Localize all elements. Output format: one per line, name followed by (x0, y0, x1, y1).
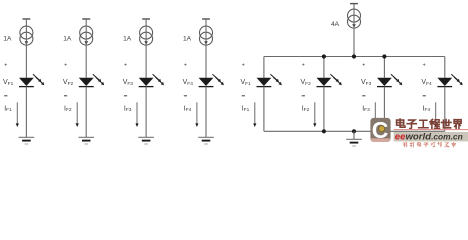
svg-text:+: + (362, 62, 365, 68)
svg-text:+: + (242, 62, 245, 68)
svg-text:1A: 1A (3, 35, 12, 42)
svg-text:+: + (184, 62, 187, 68)
svg-text:1A: 1A (63, 35, 72, 42)
svg-text:4A: 4A (331, 21, 340, 28)
svg-text:+: + (302, 62, 305, 68)
svg-text:1A: 1A (123, 35, 132, 42)
svg-text:1A: 1A (183, 35, 192, 42)
svg-text:+: + (64, 62, 67, 68)
svg-text:+: + (4, 62, 7, 68)
svg-text:eeworld.com.cn: eeworld.com.cn (395, 131, 463, 142)
svg-text:+: + (124, 62, 127, 68)
svg-text:+: + (423, 62, 426, 68)
